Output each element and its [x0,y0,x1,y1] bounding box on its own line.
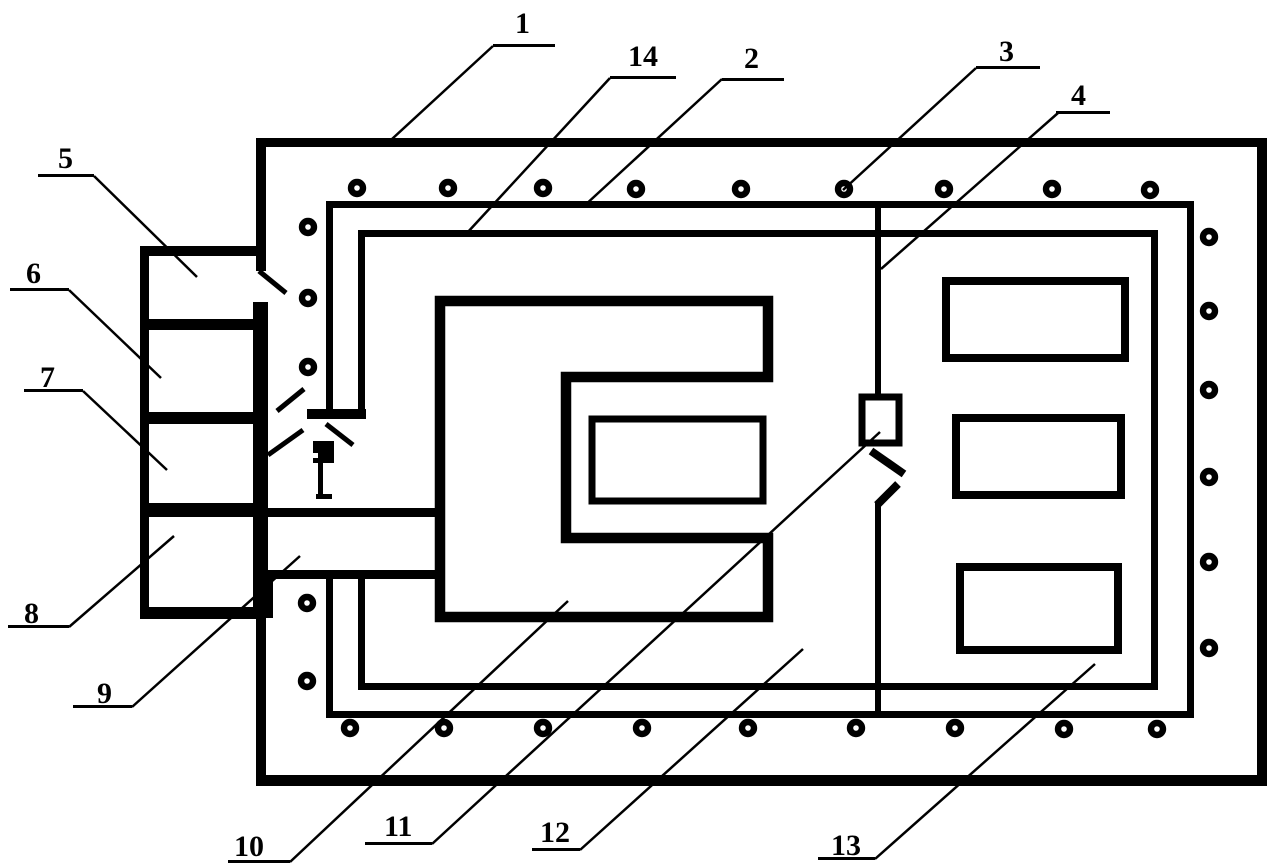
heat shield liner 14 : right edge [1151,230,1158,690]
svg-text:6: 6 [26,257,41,290]
electron gun block : bottom edge [140,607,260,619]
outer chamber wall 1 : bottom edge [256,775,1267,786]
leader line 1 [392,46,493,139]
svg-text:14: 14 [628,40,658,73]
valve blade upper [871,451,904,474]
inner rectangle in mold notch [592,419,763,501]
cathode foot [316,494,332,499]
leader line 13 [875,664,1095,859]
beam guide pipe 9 : top line [262,508,438,517]
electron gun block divider 3 [140,503,258,517]
gun flap right [326,424,353,445]
leader line 5 [94,176,197,277]
beam guide pipe 9 : bottom line [262,570,438,579]
svg-text:11: 11 [384,810,412,843]
svg-text:1: 1 [515,7,530,40]
heater 13 rect 3 [960,567,1118,650]
electron gun block : left edge [140,247,149,616]
leader line 8 [69,536,174,627]
heater 13 rect 2 [956,418,1121,495]
leader line 11 [432,432,880,844]
partition line lower [875,503,881,716]
bolt circles 3 : top row [351,182,1156,196]
leader line 14 [467,78,610,233]
wall junction block below pipe [256,574,273,618]
gun port flap upper [259,271,286,293]
electron gun block : top edge [140,246,266,256]
leader line 3 [843,68,976,190]
heat shield liner 14 : bottom edge [358,683,1158,690]
svg-text:4: 4 [1071,79,1086,112]
leader line 2 [583,79,722,207]
valve blade lower hook [877,484,898,505]
bolt circles : left column [301,221,314,687]
leader line 4 [881,113,1058,269]
inner flange rectangle 2 : left edge lower [326,574,333,718]
outer chamber wall 1 : left edge lower (below gun port) [256,302,266,785]
heat shield liner 14 : left edge lower [358,578,365,690]
cathode stem [318,462,323,495]
outer chamber wall 1 : left edge upper (above gun port) [256,138,266,271]
gun flap lower [268,430,303,455]
partition line 4 upper [875,201,881,394]
electron gun block divider 1 [140,319,258,330]
inner flange rectangle 2 : left edge upper [326,201,333,418]
inner flange rectangle 2 : right edge [1187,201,1194,718]
leader line 9 [132,556,300,707]
inner flange rectangle 2 : top edge [326,201,1194,208]
svg-text:10: 10 [234,830,264,863]
bolt circles : bottom row [344,722,1163,735]
gun flap middle [277,389,304,411]
bolt circles : right column [1203,231,1215,654]
central mold block 10 outline [440,301,768,617]
outer chamber wall 1 : right edge [1257,138,1267,786]
gun port cap segment [307,409,366,419]
leader line 10 [290,601,568,862]
svg-text:12: 12 [540,816,570,849]
outer chamber wall 1 : top edge [256,138,1267,147]
svg-text:3: 3 [999,35,1014,68]
heat shield liner 14 : left edge upper [358,230,365,418]
leader line 6 [69,290,161,378]
cathode blob [313,441,334,463]
electron gun block divider 2 [140,412,258,424]
leader line 12 [580,649,803,850]
heater 13 rect 1 [946,281,1125,358]
valve body 11 [862,397,899,443]
svg-text:2: 2 [744,42,759,75]
inner flange rectangle 2 : bottom edge [326,711,1194,718]
svg-text:5: 5 [58,142,73,175]
leader line 7 [83,391,167,470]
heat shield liner 14 : top edge [358,230,1158,237]
